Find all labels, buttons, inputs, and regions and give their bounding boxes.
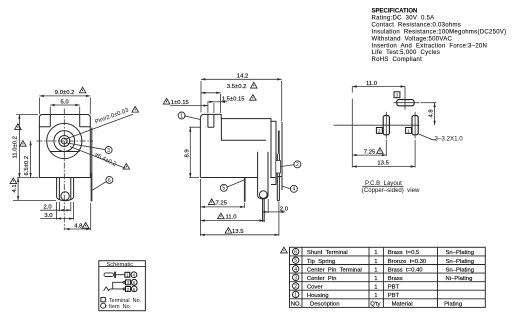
svg-text:Rating:DC 30V 0.5A: Rating:DC 30V 0.5A [372, 16, 435, 22]
svg-text:11.0±0.2: 11.0±0.2 [12, 136, 18, 158]
dim p7.25 triangle [377, 148, 384, 154]
svg-text:Sn–Plating: Sn–Plating [446, 250, 475, 256]
svg-text:Plating: Plating [444, 302, 462, 308]
cover plate [271, 121, 276, 184]
svg-text:SPECIFICATION: SPECIFICATION [372, 9, 418, 15]
housing step horizontals [39, 126, 90, 128]
dim 2.0s ext [267, 199, 269, 213]
dim 8.9 ext line [189, 127, 200, 177]
svg-text:1: 1 [374, 293, 377, 299]
dim p4.8 line [434, 103, 436, 126]
svg-text:Contact Resistance:0.03ohms: Contact Resistance:0.03ohms [372, 22, 462, 28]
shunt terminal bar [278, 131, 280, 154]
svg-text:Schematic: Schematic [107, 262, 134, 268]
svg-text:7.25: 7.25 [216, 200, 228, 206]
dim 9.0 ext lines [39, 98, 90, 115]
svg-text:: Terminal No.: : Terminal No. [106, 298, 142, 304]
dim 1.5 line [214, 101, 221, 103]
leader item5 [227, 180, 244, 187]
schematic frame [99, 261, 146, 311]
svg-text:1.5±0.15: 1.5±0.15 [222, 96, 246, 102]
svg-text:2.0: 2.0 [44, 205, 53, 211]
tab hole [61, 192, 69, 200]
leader to item3 [67, 143, 106, 150]
tab inner slot lines [59, 178, 70, 200]
svg-text:3.5±0.2: 3.5±0.2 [227, 84, 247, 90]
item circle 6 [131, 279, 137, 285]
dim 4.1 line [17, 178, 19, 201]
svg-text:5: 5 [222, 186, 225, 192]
dim p7.25 ext [385, 140, 387, 156]
SCHEMATIC-BOX [99, 261, 146, 311]
dim 11.0 line [18, 115, 20, 178]
cover tab [276, 161, 281, 174]
pad2 crosshair [385, 112, 387, 139]
legend terminal square [101, 297, 105, 301]
contact dot row2 [123, 281, 125, 283]
row5 item2 [293, 283, 299, 289]
housing front outline [39, 115, 90, 178]
dim 4.8 line [65, 228, 91, 230]
PCB-LAYOUT [334, 81, 464, 194]
svg-text:1: 1 [294, 293, 297, 299]
dim 1.5 ext line [208, 102, 214, 114]
svg-text:4.1: 4.1 [12, 184, 18, 192]
dim 1.5 triangle [250, 95, 257, 101]
svg-text:Bronze t=0.30: Bronze t=0.30 [388, 259, 427, 265]
leader to item6 [92, 181, 106, 190]
dim 2.0 line [59, 209, 70, 211]
item callout 5 [220, 184, 227, 191]
svg-text:(Copper–sided) view: (Copper–sided) view [362, 187, 420, 194]
svg-text:4: 4 [294, 267, 297, 273]
svg-text:7.25: 7.25 [364, 149, 376, 155]
svg-text:Description: Description [310, 302, 339, 308]
center pin terminal hole [260, 191, 268, 199]
svg-text:6: 6 [294, 250, 297, 256]
svg-text:NO.: NO. [291, 302, 302, 308]
center pin inner circle [61, 138, 67, 144]
dim p11.0 line [352, 86, 405, 88]
svg-text:2: 2 [296, 162, 299, 168]
housing side outline [200, 114, 271, 177]
dim 9.0 line [39, 95, 90, 97]
dim 2.0s line [268, 211, 279, 213]
dim 3.0 ext lines [57, 202, 74, 220]
dim 6.5 line [30, 141, 32, 178]
svg-text:Center Pin Terminal: Center Pin Terminal [307, 267, 362, 273]
dim 13.5s triangle [225, 227, 232, 233]
dim 1 leader [170, 105, 208, 107]
shunt terminal side sliver [91, 128, 93, 173]
pad1 crosshair [414, 112, 416, 139]
svg-text:13.5: 13.5 [377, 161, 389, 167]
pcb left extension line [351, 87, 353, 168]
tip spring pin [244, 178, 246, 202]
item callout 1 [178, 112, 185, 119]
table column lines [302, 247, 438, 307]
pad 3 slot [397, 100, 414, 106]
svg-text:13.5: 13.5 [232, 229, 244, 235]
svg-text:14.2: 14.2 [237, 73, 248, 79]
dim 13.5 ext [278, 202, 280, 236]
item callout 2 [294, 161, 301, 168]
dim 7.25 ext [244, 203, 246, 208]
table outer frame [290, 247, 486, 307]
svg-text:2.0: 2.0 [280, 206, 289, 212]
housing step verticals [50, 115, 79, 127]
dim 3.5 ext line [220, 94, 222, 113]
dim 11.0 line [200, 220, 263, 222]
item callout 3 [105, 147, 112, 154]
terminal square 3 [126, 280, 131, 285]
housing inner step [221, 119, 266, 141]
dim p4.8 ext [421, 102, 437, 104]
svg-text:PBT: PBT [388, 285, 400, 291]
dim p7.25 line [352, 154, 386, 156]
legend item circle [101, 303, 106, 308]
svg-text:Cover: Cover [307, 285, 323, 291]
rear small step [277, 176, 282, 178]
svg-text:3.0: 3.0 [44, 213, 53, 219]
svg-text:Sn–Plating: Sn–Plating [446, 259, 475, 265]
dim 11.0 ext lines [16, 115, 38, 178]
svg-text:5: 5 [294, 258, 297, 264]
pad 1 slot [412, 116, 418, 135]
side bottom ext left [199, 179, 201, 236]
svg-text:Shunt Terminal: Shunt Terminal [307, 250, 348, 256]
svg-text:1: 1 [374, 276, 377, 282]
tip spring zigzag [104, 287, 124, 291]
svg-text:9.0±0.2: 9.0±0.2 [55, 90, 75, 96]
label dia6.4 triangle [123, 163, 130, 169]
pad 3 label square [394, 92, 400, 98]
dim 1 triangle [163, 98, 170, 104]
dim 4.1 triangle [10, 178, 17, 184]
row6 item1 [293, 291, 299, 297]
leader dia6.4 [70, 147, 126, 169]
wire row2 with branch [113, 282, 124, 289]
table row lines [290, 256, 486, 299]
dim p13.5 line [352, 166, 415, 168]
svg-text:1: 1 [374, 259, 377, 265]
svg-text:4.8: 4.8 [74, 224, 83, 230]
dim 9.0 triangle [79, 87, 86, 93]
dim 14.2 line [201, 78, 282, 80]
svg-text:Housing: Housing [307, 293, 329, 299]
svg-text:Ni–Plating: Ni–Plating [446, 276, 473, 282]
svg-text:Insulation Resistance:100Mego: Insulation Resistance:100Megohms(DC250V) [372, 29, 507, 35]
svg-text:RoHS Compliant: RoHS Compliant [372, 57, 423, 63]
svg-text:3–3.2X1.0: 3–3.2X1.0 [435, 135, 464, 142]
dim 2.0 ext lines [59, 202, 70, 211]
table warning triangle [281, 247, 288, 253]
dim 5.0 ext lines [50, 107, 79, 115]
svg-text:Sn–Plating: Sn–Plating [446, 267, 475, 273]
svg-text:3: 3 [294, 275, 297, 281]
row3 item4 [293, 266, 299, 272]
shunt plate outer edge [281, 122, 283, 190]
SIDE-VIEW [163, 73, 301, 236]
dim 14.2 ext lines [201, 81, 282, 121]
svg-text:Withstand Voltage:500VAC: Withstand Voltage:500VAC [372, 36, 453, 42]
dim 7.25 triangle [208, 199, 215, 205]
plug barrel symbol [104, 273, 114, 277]
housing lower chord line [50, 151, 79, 153]
row1 item6 [293, 248, 299, 254]
dim 3.0 tail [40, 218, 56, 220]
dim 7.25 line [200, 206, 244, 208]
pad 2 label square [376, 128, 382, 134]
svg-text:1: 1 [374, 250, 377, 256]
horizontal centerline [37, 140, 94, 142]
svg-text:2: 2 [294, 284, 297, 290]
svg-text:2: 2 [378, 128, 381, 134]
dim 11.0s triangle [218, 213, 225, 219]
dim 3.5 line [201, 92, 221, 94]
lip groove [208, 114, 214, 127]
vertical centerline [63, 109, 65, 231]
svg-text:1: 1 [374, 285, 377, 291]
center pin terminal pin [263, 199, 265, 222]
leader pin2.0 [65, 114, 133, 139]
terminal square 1 [125, 272, 130, 277]
dim 4.1 ext line [13, 200, 56, 202]
svg-text:3: 3 [396, 93, 399, 99]
svg-text:Center Pin: Center Pin [307, 276, 336, 282]
dim p13.5 ext [414, 140, 416, 168]
dim 2.0 tail [40, 209, 59, 211]
center pin outer circle [59, 136, 70, 147]
leader item1 [184, 116, 200, 120]
svg-text:: Item No.: : Item No. [106, 304, 132, 310]
item callout 4 [290, 185, 297, 192]
barrel outer circle [47, 123, 82, 158]
svg-text:11.0: 11.0 [366, 81, 378, 87]
svg-text:Life Test:5,000 Cycles: Life Test:5,000 Cycles [372, 50, 441, 56]
pad 1 label square [406, 128, 412, 134]
dim 8.9 line [189, 127, 191, 177]
svg-text:Tip Spring: Tip Spring [307, 259, 335, 265]
row2 item5 [293, 257, 299, 263]
shunt terminal solder leg [91, 173, 93, 202]
pcb centerline [334, 124, 420, 126]
dim 11.0 triangle [15, 124, 22, 130]
svg-text:Brass t=0.40: Brass t=0.40 [388, 267, 424, 273]
svg-text:11.0: 11.0 [226, 215, 238, 221]
label Pin2.0 triangle [132, 106, 139, 112]
leader 3-3.2 [418, 134, 437, 140]
terminal square 2 [126, 287, 131, 292]
svg-text:6.5±0.2: 6.5±0.2 [24, 156, 30, 176]
dim 3.0 line [57, 218, 74, 220]
svg-text:1: 1 [180, 113, 183, 119]
dim 5.0 line [50, 104, 79, 106]
housing bottom edge [200, 177, 275, 179]
svg-text:Q'ty: Q'ty [370, 302, 380, 308]
pcb title underline [362, 185, 403, 187]
svg-text:Material: Material [392, 302, 413, 308]
svg-text:Brass t=0.5: Brass t=0.5 [388, 250, 420, 256]
FRONT-VIEW [10, 87, 138, 230]
dim 4.8 ext line [90, 203, 92, 230]
svg-text:1: 1 [407, 128, 410, 134]
wire row1 [116, 274, 125, 276]
svg-text:8.9: 8.9 [184, 149, 190, 157]
dim 4.8 triangle [82, 222, 89, 228]
plug tip bar [114, 272, 116, 278]
barrel middle circle [54, 131, 75, 152]
pad 2 slot [383, 116, 389, 135]
dim 6.5 triangle [20, 141, 27, 147]
pad3 crosshair [394, 87, 420, 110]
center pin terminal tab outline [57, 178, 74, 201]
svg-text:6: 6 [108, 178, 111, 184]
svg-text:PBT: PBT [388, 293, 400, 299]
svg-text:1: 1 [374, 267, 377, 273]
svg-text:P.C.B Layout: P.C.B Layout [365, 180, 402, 187]
item circle 5 [131, 286, 137, 292]
svg-text:5.0: 5.0 [61, 100, 70, 106]
center pin terminal body [258, 152, 268, 199]
svg-text:Brass: Brass [388, 276, 403, 282]
leader item4 [282, 186, 291, 189]
item circle 4 [131, 272, 137, 278]
svg-text:Insertion And Extraction Fo: Insertion And Extraction Force:3–20N [372, 43, 488, 49]
SPEC-BLOCK [372, 9, 507, 64]
svg-text:4: 4 [293, 187, 296, 193]
schematic title separator [99, 266, 146, 268]
rear pin outline [277, 154, 279, 201]
svg-text:4.8: 4.8 [428, 109, 434, 118]
contact dot row3 [123, 288, 125, 290]
dim 13.5 line [200, 234, 279, 236]
PARTS-TABLE [281, 247, 486, 308]
dim 3.5 triangle [251, 82, 258, 88]
row4 item3 [293, 274, 299, 280]
item callout 6 [106, 176, 113, 183]
svg-text:3: 3 [107, 148, 110, 154]
leader item2 [281, 165, 295, 167]
